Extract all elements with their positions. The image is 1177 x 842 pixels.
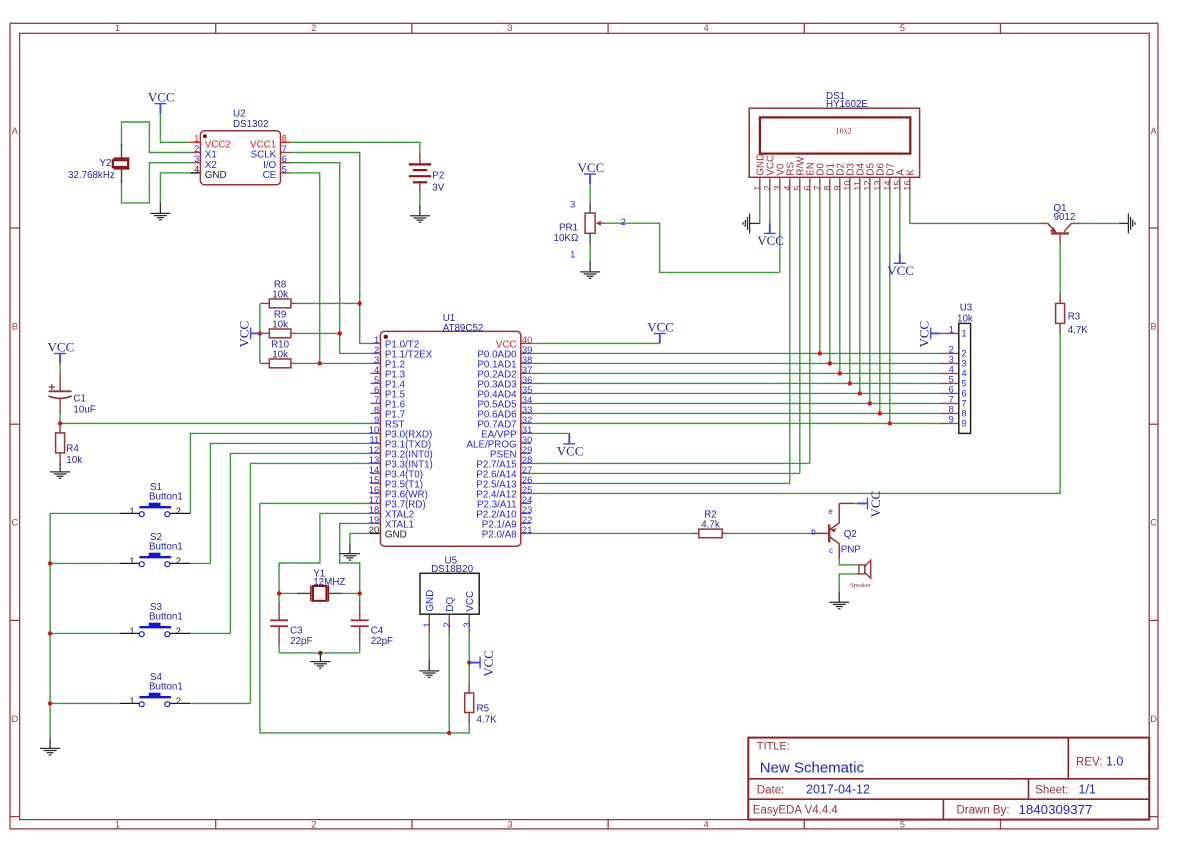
svg-text:2: 2 — [441, 622, 452, 627]
svg-text:1: 1 — [129, 505, 134, 516]
svg-text:1: 1 — [961, 327, 966, 338]
svg-text:1.0: 1.0 — [1106, 755, 1123, 769]
svg-text:10k: 10k — [272, 320, 288, 331]
svg-text:1/1: 1/1 — [1079, 782, 1096, 796]
svg-text:9012: 9012 — [1054, 212, 1076, 223]
svg-text:2: 2 — [311, 819, 316, 829]
svg-text:B: B — [12, 321, 18, 331]
svg-text:4: 4 — [704, 819, 709, 829]
svg-text:10k: 10k — [272, 290, 288, 301]
svg-text:22pF: 22pF — [290, 636, 312, 647]
svg-text:B: B — [1151, 321, 1157, 331]
svg-text:U3: U3 — [960, 303, 973, 314]
svg-text:AT89C52: AT89C52 — [443, 323, 484, 334]
svg-text:P2.0/A8: P2.0/A8 — [482, 529, 517, 540]
svg-text:5: 5 — [900, 23, 905, 33]
svg-text:16: 16 — [902, 180, 913, 190]
svg-text:b: b — [811, 527, 816, 536]
svg-text:D: D — [11, 714, 18, 724]
svg-text:10k: 10k — [66, 455, 82, 466]
svg-text:2: 2 — [176, 695, 181, 706]
svg-text:2: 2 — [176, 555, 181, 566]
svg-text:DS18B20: DS18B20 — [431, 564, 473, 575]
svg-text:VCC: VCC — [48, 340, 75, 355]
svg-text:4.7K: 4.7K — [1068, 325, 1089, 336]
svg-text:1: 1 — [570, 249, 575, 260]
svg-text:Y2: Y2 — [100, 158, 112, 169]
svg-text:VCC: VCC — [481, 650, 496, 677]
svg-text:10KΩ: 10KΩ — [554, 233, 579, 244]
svg-text:VCC: VCC — [868, 491, 883, 518]
svg-text:2: 2 — [176, 505, 181, 516]
svg-text:P2: P2 — [432, 170, 444, 181]
svg-text:PNP: PNP — [841, 544, 862, 555]
svg-text:Speaker: Speaker — [850, 583, 871, 589]
svg-text:1: 1 — [949, 324, 954, 335]
svg-text:VCC: VCC — [578, 160, 605, 175]
svg-text:3: 3 — [507, 819, 512, 829]
svg-text:Button1: Button1 — [149, 612, 183, 623]
svg-text:2: 2 — [176, 625, 181, 636]
svg-text:1: 1 — [115, 819, 120, 829]
svg-text:C: C — [1150, 518, 1157, 528]
svg-text:5: 5 — [282, 163, 287, 174]
svg-text:3: 3 — [461, 622, 472, 627]
svg-text:16x2: 16x2 — [835, 127, 851, 136]
svg-text:VCC: VCC — [647, 320, 674, 335]
svg-text:REV:: REV: — [1076, 756, 1102, 768]
svg-text:VCC: VCC — [757, 233, 784, 248]
svg-text:21: 21 — [522, 524, 532, 535]
svg-text:GND: GND — [205, 170, 227, 181]
svg-text:10uF: 10uF — [73, 404, 95, 415]
svg-text:1840309377: 1840309377 — [1019, 802, 1093, 817]
svg-text:1: 1 — [421, 622, 432, 627]
svg-text:3: 3 — [507, 23, 512, 33]
svg-text:10k: 10k — [957, 314, 973, 325]
svg-text:R5: R5 — [477, 704, 490, 715]
svg-text:Drawn By:: Drawn By: — [957, 805, 1010, 817]
svg-text:R3: R3 — [1068, 312, 1081, 323]
svg-text:c: c — [829, 546, 833, 555]
svg-text:CE: CE — [263, 170, 277, 181]
svg-text:2: 2 — [311, 23, 316, 33]
svg-text:DQ: DQ — [445, 597, 456, 612]
svg-text:4: 4 — [194, 163, 199, 174]
svg-text:20: 20 — [369, 524, 379, 535]
svg-text:Button1: Button1 — [149, 492, 183, 503]
svg-text:1: 1 — [129, 625, 134, 636]
svg-text:VCC: VCC — [557, 444, 584, 459]
svg-text:e: e — [828, 507, 833, 516]
svg-text:VCC: VCC — [465, 591, 476, 612]
svg-text:1: 1 — [115, 23, 120, 33]
svg-text:A: A — [1151, 126, 1158, 136]
svg-text:R4: R4 — [66, 444, 79, 455]
svg-text:9: 9 — [961, 417, 966, 428]
svg-text:22pF: 22pF — [371, 636, 393, 647]
svg-text:EasyEDA V4.4.4: EasyEDA V4.4.4 — [753, 805, 839, 817]
svg-text:D: D — [1150, 714, 1157, 724]
svg-text:VCC: VCC — [237, 321, 252, 348]
svg-text:GND: GND — [385, 529, 407, 540]
svg-text:GND: GND — [425, 590, 436, 612]
svg-text:A: A — [12, 126, 19, 136]
svg-text:C: C — [11, 518, 18, 528]
svg-text:HY1602E: HY1602E — [826, 99, 868, 110]
svg-text:Date:: Date: — [757, 784, 785, 796]
svg-text:VCC: VCC — [887, 263, 914, 278]
svg-text:1: 1 — [129, 555, 134, 566]
svg-text:3: 3 — [570, 199, 575, 210]
svg-text:TITLE:: TITLE: — [757, 741, 790, 753]
svg-text:Q2: Q2 — [844, 529, 857, 540]
svg-text:32.768kHz: 32.768kHz — [68, 170, 115, 181]
svg-text:9: 9 — [949, 414, 954, 425]
svg-text:VCC: VCC — [917, 321, 932, 348]
svg-text:5: 5 — [900, 819, 905, 829]
svg-text:K: K — [905, 169, 916, 176]
svg-text:DS1302: DS1302 — [233, 119, 268, 130]
svg-text:4.7k: 4.7k — [701, 519, 720, 530]
svg-text:1: 1 — [129, 695, 134, 706]
svg-text:4.7K: 4.7K — [477, 715, 498, 726]
svg-text:10k: 10k — [272, 350, 288, 361]
svg-text:C1: C1 — [73, 394, 86, 405]
svg-text:New Schematic: New Schematic — [760, 759, 865, 776]
svg-text:Sheet:: Sheet: — [1035, 784, 1068, 796]
svg-text:3V: 3V — [432, 183, 444, 194]
svg-text:Button1: Button1 — [149, 682, 183, 693]
svg-text:4: 4 — [704, 23, 709, 33]
svg-text:12MHZ: 12MHZ — [313, 577, 345, 588]
svg-text:2017-04-12: 2017-04-12 — [806, 782, 870, 796]
svg-text:2: 2 — [621, 216, 626, 227]
svg-text:VCC: VCC — [148, 90, 175, 105]
svg-text:Button1: Button1 — [149, 542, 183, 553]
